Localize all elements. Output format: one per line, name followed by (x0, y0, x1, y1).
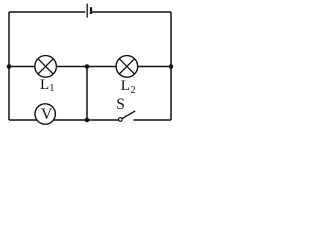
battery cell short plate (-) (90, 7, 92, 14)
node right-middle (169, 64, 174, 69)
wire right rail (170, 12, 172, 120)
node bottom-middle (85, 118, 90, 123)
wire top-right segment (92, 11, 171, 13)
wire bottom-right segment (134, 119, 172, 121)
battery cell long plate (+) (86, 4, 88, 18)
svg-text:S: S (116, 96, 125, 113)
wire top-left segment (9, 11, 85, 13)
lamp L2 (116, 56, 138, 78)
voltmeter V (35, 104, 55, 124)
svg-text:V: V (41, 106, 53, 123)
node center-middle (85, 64, 90, 69)
wire middle vertical (86, 67, 88, 121)
svg-text:L: L (40, 77, 49, 93)
node left-middle (7, 64, 12, 69)
switch S lever (122, 111, 135, 119)
svg-text:L: L (121, 78, 130, 94)
wire bottom-left segment (9, 119, 119, 121)
wire left rail (8, 12, 10, 120)
wire middle horizontal (9, 66, 171, 68)
svg-text:1: 1 (49, 83, 54, 94)
svg-text:2: 2 (130, 85, 135, 96)
lamp L1 (35, 56, 57, 78)
switch S pivot (119, 118, 123, 122)
